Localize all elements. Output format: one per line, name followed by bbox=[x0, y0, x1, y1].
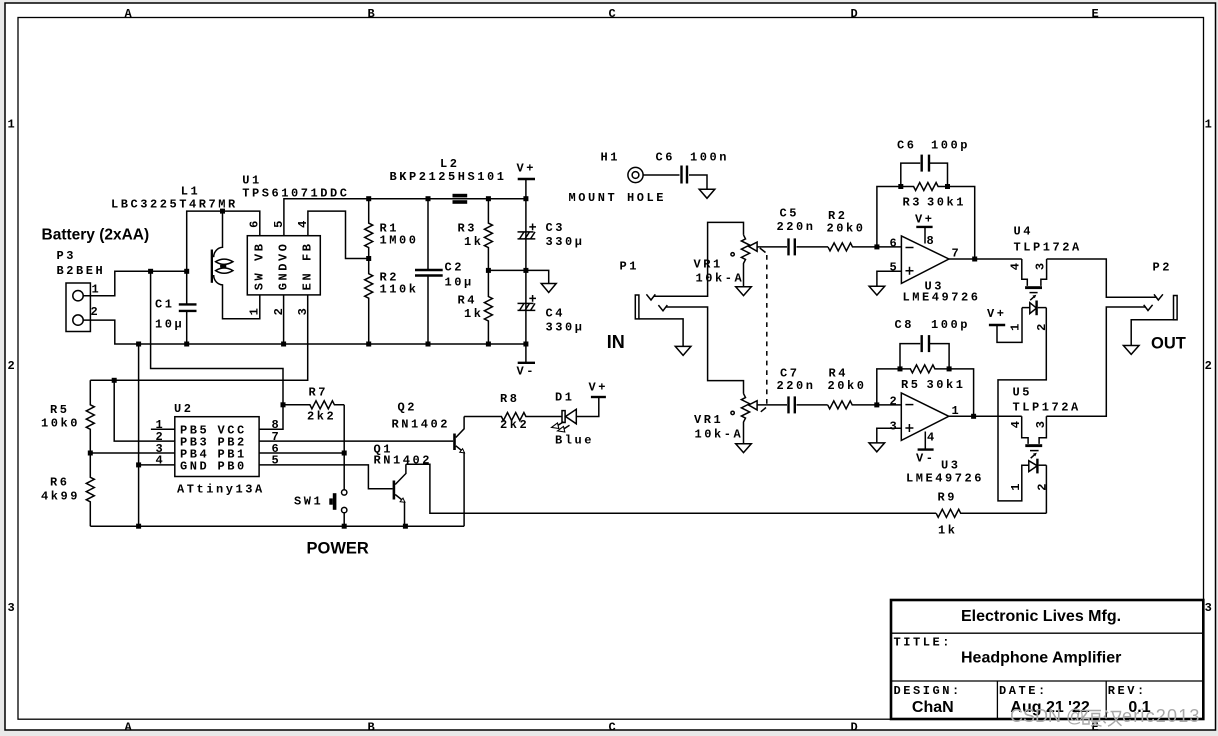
ground symbol U3A pin5 bbox=[869, 286, 885, 295]
resistor R4 bbox=[484, 270, 492, 344]
wire battery plus to L1 and U1 pin6 bbox=[187, 211, 260, 271]
node op-amp B inverting input bbox=[874, 402, 879, 407]
resistor R5 bbox=[86, 380, 94, 453]
wire C7 to R4 bbox=[797, 404, 828, 406]
resistor R6 bbox=[86, 453, 94, 526]
svg-text:LBC3225T4R7MR: LBC3225T4R7MR bbox=[111, 198, 238, 212]
svg-text:10k-A: 10k-A bbox=[696, 272, 745, 286]
watermark CSDN bbox=[1010, 706, 1201, 726]
svg-text:1: 1 bbox=[248, 306, 262, 316]
svg-text:P3: P3 bbox=[57, 249, 77, 263]
svg-text:100p: 100p bbox=[931, 139, 970, 153]
resistor R7 bbox=[283, 401, 344, 409]
wire U4 LED cathode to U5 LED anode bbox=[998, 308, 1046, 501]
svg-text:3: 3 bbox=[890, 420, 900, 434]
svg-text:30k1: 30k1 bbox=[927, 196, 966, 210]
wire mid rail to ground bbox=[488, 270, 548, 283]
wire Q1 collector to R9 rail bbox=[406, 464, 936, 513]
svg-text:C2: C2 bbox=[445, 261, 465, 275]
svg-text:REV:: REV: bbox=[1108, 684, 1147, 698]
svg-text:VR1: VR1 bbox=[694, 413, 723, 427]
svg-text:R3: R3 bbox=[903, 196, 923, 210]
svg-text:D: D bbox=[851, 7, 861, 21]
node output rail / R3 bbox=[486, 196, 491, 201]
power symbol V- bottom bbox=[518, 344, 535, 363]
svg-text:TITLE:: TITLE: bbox=[894, 636, 953, 650]
svg-text:4: 4 bbox=[1009, 419, 1023, 429]
svg-text:V+: V+ bbox=[589, 381, 609, 395]
svg-text:Electronic Lives Mfg.: Electronic Lives Mfg. bbox=[961, 608, 1121, 625]
wire U1 pin3 EN long run bbox=[90, 295, 307, 380]
node L1 top junction bbox=[220, 209, 225, 214]
wire feedback B right to output bbox=[949, 369, 974, 416]
node R5/R6/PB4 junction bbox=[88, 451, 93, 456]
svg-text:DATE:: DATE: bbox=[999, 684, 1048, 698]
svg-text:330µ: 330µ bbox=[546, 321, 585, 335]
resistor R9 bbox=[936, 509, 1046, 517]
svg-text:1k: 1k bbox=[938, 524, 958, 538]
svg-text:EN FB: EN FB bbox=[301, 242, 315, 291]
svg-text:L1: L1 bbox=[181, 185, 201, 199]
capacitor C4 (electrolytic) bbox=[518, 270, 537, 344]
ground symbol P1 bbox=[675, 346, 691, 355]
svg-text:POWER: POWER bbox=[307, 540, 369, 558]
svg-text:TLP172A: TLP172A bbox=[1013, 401, 1081, 415]
svg-text:R4: R4 bbox=[458, 294, 478, 308]
svg-text:2k2: 2k2 bbox=[307, 410, 336, 424]
U3B minus sign bbox=[905, 404, 913, 406]
op-amp U3B feedback wire left bbox=[877, 369, 900, 405]
svg-text:V-: V- bbox=[517, 365, 537, 379]
wire VCC pin8 to V+ net bbox=[151, 271, 283, 429]
wire U1 pin4 FB to divider bbox=[308, 211, 369, 258]
connector P3 pin 1 circle bbox=[73, 291, 83, 301]
node feedback B right bbox=[947, 366, 952, 371]
svg-text:4: 4 bbox=[927, 430, 937, 444]
svg-text:C6: C6 bbox=[656, 151, 676, 165]
node R7 / PB1 junction bbox=[342, 451, 347, 456]
svg-text:C1: C1 bbox=[155, 298, 175, 312]
photorelay U4 symbol bbox=[1022, 259, 1047, 315]
power symbol V+ top bbox=[518, 179, 535, 199]
wire P1 sleeve to ground bbox=[639, 319, 683, 347]
node gnd rail / U1 GND bbox=[281, 342, 286, 347]
svg-text:ATtiny13A: ATtiny13A bbox=[177, 483, 265, 497]
svg-text:C6: C6 bbox=[897, 139, 917, 153]
resistor R4 (audio) bbox=[828, 401, 902, 409]
svg-text:20k0: 20k0 bbox=[827, 222, 866, 236]
U3A V+ power stub pin 8 bbox=[916, 227, 932, 244]
svg-text:C: C bbox=[609, 721, 619, 735]
capacitor C3 (electrolytic) bbox=[518, 199, 537, 271]
svg-text:20k0: 20k0 bbox=[828, 379, 867, 393]
svg-text:Q2: Q2 bbox=[398, 401, 418, 415]
connector P3 pin 2 circle bbox=[73, 315, 83, 325]
resistor R3 (feedback) bbox=[901, 183, 948, 191]
node FB divider junction bbox=[366, 256, 371, 261]
node mid rail / R3 R4 bbox=[486, 268, 491, 273]
IC U1 body bbox=[247, 236, 320, 295]
wire U1 pin5 VO to output rail bbox=[284, 199, 526, 236]
capacitor C7 bbox=[789, 396, 795, 413]
resistor R5 (feedback) bbox=[900, 365, 949, 373]
svg-text:PB0: PB0 bbox=[218, 459, 247, 473]
svg-text:Headphone Amplifier: Headphone Amplifier bbox=[961, 650, 1121, 667]
wire R7 to SW1 top bbox=[343, 405, 345, 490]
svg-text:R8: R8 bbox=[500, 392, 520, 406]
power symbol V+ mid bbox=[987, 307, 1022, 342]
wire C6 to ground bbox=[689, 175, 707, 189]
svg-text:RN1402: RN1402 bbox=[392, 418, 451, 432]
svg-text:BKP2125HS101: BKP2125HS101 bbox=[390, 170, 507, 184]
svg-text:E: E bbox=[1092, 7, 1102, 21]
node mcu gnd rail / SW1 bbox=[342, 524, 347, 529]
svg-text:C8: C8 bbox=[895, 318, 915, 332]
wire C5 to R2 bbox=[797, 246, 829, 248]
svg-text:10k-A: 10k-A bbox=[695, 428, 744, 442]
node output rail / V+ bbox=[523, 196, 528, 201]
svg-text:C5: C5 bbox=[780, 207, 800, 221]
svg-text:6: 6 bbox=[890, 237, 900, 251]
svg-text:4: 4 bbox=[156, 454, 166, 468]
potentiometer VR1a bbox=[731, 235, 757, 287]
wire battery minus: P3 pin2 to ground rail bbox=[83, 320, 526, 344]
IC U2 body bbox=[175, 417, 259, 477]
svg-text:TLP172A: TLP172A bbox=[1014, 241, 1082, 255]
svg-text:P2: P2 bbox=[1153, 261, 1173, 275]
capacitor C8 (feedback) bbox=[900, 335, 949, 369]
op-amp U3A feedback wire left bbox=[877, 187, 901, 247]
U3A minus sign bbox=[906, 247, 914, 249]
svg-text:C4: C4 bbox=[546, 307, 566, 321]
svg-text:330µ: 330µ bbox=[546, 235, 585, 249]
wire PB3 to EN net bbox=[114, 380, 175, 441]
U3A plus sign bbox=[906, 267, 914, 275]
wire P1 ring to VR1b top bbox=[666, 307, 744, 394]
svg-text:OUT: OUT bbox=[1151, 335, 1186, 353]
potentiometer VR1b bbox=[731, 394, 757, 444]
svg-text:220n: 220n bbox=[777, 220, 816, 234]
U3B V- power stub pin 4 bbox=[918, 432, 934, 450]
svg-text:U1: U1 bbox=[242, 174, 262, 188]
svg-text:10k0: 10k0 bbox=[41, 417, 80, 431]
power symbol V+ at D1 bbox=[591, 396, 606, 398]
svg-text:1: 1 bbox=[92, 283, 102, 297]
ground symbol VR1a bbox=[736, 287, 752, 296]
svg-text:R5: R5 bbox=[50, 403, 70, 417]
node gnd rail / C1 bbox=[184, 342, 189, 347]
ground symbol U3B pin3 bbox=[869, 443, 885, 452]
node gnd rail / R4 bbox=[486, 342, 491, 347]
svg-text:IN: IN bbox=[607, 332, 625, 352]
svg-text:2: 2 bbox=[1205, 359, 1215, 373]
svg-text:U3: U3 bbox=[941, 459, 961, 473]
node mcu gnd rail / Q1 emitter bbox=[403, 524, 408, 529]
svg-text:3: 3 bbox=[1033, 260, 1047, 270]
svg-text:V-: V- bbox=[916, 452, 936, 466]
node gnd rail / V- stub bbox=[523, 342, 528, 347]
ferrite bead L2 bbox=[453, 194, 468, 204]
U2 pin 1 stub (PB5 n.c.) bbox=[151, 428, 175, 430]
connector P3 body bbox=[66, 283, 90, 332]
svg-text:10µ: 10µ bbox=[445, 276, 474, 290]
svg-text:10µ: 10µ bbox=[155, 318, 184, 332]
node gnd rail / R2 bbox=[366, 342, 371, 347]
capacitor C5 bbox=[789, 238, 795, 255]
svg-text:6: 6 bbox=[248, 218, 262, 228]
svg-text:C3: C3 bbox=[546, 221, 566, 235]
svg-text:V+: V+ bbox=[915, 213, 935, 227]
svg-text:Battery (2xAA): Battery (2xAA) bbox=[42, 227, 150, 244]
svg-text:4: 4 bbox=[1008, 260, 1022, 270]
svg-text:DESIGN:: DESIGN: bbox=[894, 684, 962, 698]
node gnd rail / MCU drop bbox=[136, 342, 141, 347]
ground symbol VR1b bbox=[736, 444, 752, 453]
node feedback B left bbox=[898, 366, 903, 371]
svg-text:eric2013: eric2013 bbox=[1122, 706, 1201, 726]
capacitor C2 bbox=[415, 199, 443, 344]
svg-text:R7: R7 bbox=[309, 386, 329, 400]
wire U3A output to U4 bbox=[949, 258, 1022, 260]
wire U1 pin2 GND to rail bbox=[283, 295, 285, 344]
svg-text:U4: U4 bbox=[1014, 225, 1034, 239]
svg-text:H1: H1 bbox=[601, 151, 621, 165]
svg-text:SW1: SW1 bbox=[294, 495, 323, 509]
svg-text:V+: V+ bbox=[987, 307, 1007, 321]
svg-text:100p: 100p bbox=[931, 318, 970, 332]
svg-text:8: 8 bbox=[927, 234, 937, 248]
jack P1 body bbox=[635, 294, 667, 319]
ground symbol mount bbox=[699, 189, 715, 198]
svg-text:3: 3 bbox=[8, 601, 18, 615]
node mid rail / C3 C4 bbox=[523, 268, 528, 273]
watermark CJK glyphs 硬汉 bbox=[1082, 711, 1122, 727]
svg-text:U5: U5 bbox=[1013, 386, 1033, 400]
LED D1 bbox=[552, 398, 599, 432]
jack P2 body bbox=[1144, 294, 1177, 320]
svg-text:SW VB: SW VB bbox=[252, 242, 266, 291]
wire VR1a wiper to C5 bbox=[757, 246, 787, 248]
svg-text:110k: 110k bbox=[380, 283, 419, 297]
node mcu gnd rail / battery drop bbox=[136, 524, 141, 529]
wire battery minus drop to U2 GND bbox=[138, 344, 140, 526]
svg-text:U2: U2 bbox=[174, 402, 194, 416]
wire PB4 to R5/R6 bbox=[90, 452, 175, 454]
transistor Q2 bbox=[453, 417, 464, 527]
node feedback left / C6 bbox=[898, 184, 903, 189]
svg-text:L2: L2 bbox=[440, 157, 460, 171]
svg-text:2: 2 bbox=[8, 359, 18, 373]
gang dashed link VR1a-VR1b bbox=[760, 248, 767, 412]
svg-text:D1: D1 bbox=[555, 391, 575, 405]
svg-text:LME49726: LME49726 bbox=[903, 291, 981, 305]
capacitor C1 bbox=[179, 271, 197, 344]
op-amp U3B triangle bbox=[901, 393, 949, 441]
wire GND pin 4 bbox=[139, 464, 175, 466]
svg-text:3: 3 bbox=[1034, 419, 1048, 429]
svg-text:1: 1 bbox=[8, 117, 18, 131]
wire VR1b wiper to C7 bbox=[757, 404, 787, 406]
svg-text:GNDVO: GNDVO bbox=[277, 242, 291, 291]
capacitor C6 (feedback) bbox=[901, 155, 948, 187]
wire P1 tip to VR1a top bbox=[654, 222, 744, 296]
svg-text:P1: P1 bbox=[620, 260, 640, 274]
transistor Q1 bbox=[393, 464, 406, 526]
svg-text:2k2: 2k2 bbox=[500, 418, 529, 432]
wire U3B output to U5 bbox=[949, 415, 1022, 417]
svg-text:A: A bbox=[125, 721, 135, 735]
wire feedback right to output bbox=[948, 187, 975, 260]
inductor L1 bbox=[211, 211, 260, 319]
svg-text:B: B bbox=[368, 721, 378, 735]
ground symbol P2 bbox=[1123, 346, 1139, 355]
svg-text:5: 5 bbox=[890, 261, 900, 275]
svg-text:30k1: 30k1 bbox=[927, 378, 966, 392]
node U3A output / feedback bbox=[972, 257, 977, 262]
svg-text:2: 2 bbox=[91, 305, 101, 319]
svg-text:1k: 1k bbox=[464, 235, 484, 249]
node U3B output / feedback bbox=[971, 414, 976, 419]
svg-text:D: D bbox=[851, 721, 861, 735]
wire U5 pin3 to P2 ring bbox=[1046, 307, 1145, 416]
wire battery plus: P3 pin1 to top rail bbox=[83, 271, 187, 295]
svg-text:R9: R9 bbox=[938, 491, 958, 505]
node junction battery plus / C1 bbox=[184, 269, 189, 274]
node VCC / R7 junction bbox=[281, 402, 286, 407]
svg-text:2: 2 bbox=[1036, 481, 1050, 491]
svg-text:R5: R5 bbox=[901, 378, 921, 392]
resistor R2 bbox=[365, 259, 373, 345]
svg-text:100n: 100n bbox=[690, 151, 729, 165]
title block outline bbox=[891, 600, 1203, 719]
wire MCU ground rail bbox=[90, 525, 464, 527]
svg-text:1k: 1k bbox=[464, 307, 484, 321]
ground symbol mid rail bbox=[541, 284, 556, 293]
wire PB1 to SW1 bbox=[259, 452, 344, 454]
svg-text:3: 3 bbox=[1205, 601, 1215, 615]
svg-text:Blue: Blue bbox=[555, 434, 594, 448]
svg-text:GND: GND bbox=[180, 459, 209, 473]
svg-text:A: A bbox=[125, 7, 135, 21]
mount hole symbol H1 bbox=[628, 167, 643, 182]
U3B plus sign bbox=[905, 424, 913, 432]
wire U4 pin3 to P2 tip bbox=[1047, 259, 1156, 297]
resistor R2 (audio) bbox=[828, 243, 901, 251]
svg-text:MOUNT HOLE: MOUNT HOLE bbox=[569, 191, 667, 205]
node op-amp A inverting input bbox=[874, 244, 879, 249]
node feedback right / C6 bbox=[945, 184, 950, 189]
svg-text:B2BEH: B2BEH bbox=[57, 264, 106, 278]
node GND pin branch bbox=[136, 462, 141, 467]
svg-text:LME49726: LME49726 bbox=[906, 472, 984, 486]
switch SW1 bbox=[329, 490, 347, 527]
op-amp U3A triangle bbox=[901, 236, 949, 284]
svg-text:ChaN: ChaN bbox=[912, 699, 954, 716]
wire P2 sleeve to ground bbox=[1131, 320, 1173, 346]
svg-text:RN1402: RN1402 bbox=[374, 453, 433, 467]
svg-text:VR1: VR1 bbox=[694, 258, 723, 272]
svg-text:CSDN @: CSDN @ bbox=[1010, 706, 1084, 726]
node output rail / R1 bbox=[366, 196, 371, 201]
svg-text:220n: 220n bbox=[777, 379, 816, 393]
node junction battery plus / VB sense bbox=[148, 269, 153, 274]
resistor R8 bbox=[464, 413, 562, 421]
wire PB2 to Q2 base bbox=[259, 440, 453, 442]
node EN wire / PB3 branch bbox=[112, 378, 117, 383]
node output rail / C2 bbox=[426, 196, 431, 201]
svg-text:1: 1 bbox=[1008, 321, 1022, 331]
svg-text:2: 2 bbox=[890, 394, 900, 408]
svg-text:1: 1 bbox=[1205, 117, 1215, 131]
svg-text:R3: R3 bbox=[458, 222, 478, 236]
resistor R1 bbox=[365, 199, 373, 259]
svg-text:1: 1 bbox=[1009, 481, 1023, 491]
svg-text:1M00: 1M00 bbox=[380, 234, 419, 248]
svg-text:R6: R6 bbox=[50, 476, 70, 490]
wire PB0 to Q1 base bbox=[259, 465, 393, 489]
wire pin5 to ground bbox=[877, 271, 902, 286]
svg-text:C: C bbox=[609, 7, 619, 21]
wire H1 to C6 bbox=[643, 174, 679, 176]
svg-text:B: B bbox=[368, 7, 378, 21]
capacitor C6 (mount) bbox=[682, 166, 688, 184]
node gnd rail / C2 bbox=[426, 342, 431, 347]
wire pin3 to ground bbox=[877, 428, 902, 443]
photorelay U5 symbol bbox=[1022, 416, 1047, 473]
resistor R3 bbox=[484, 199, 492, 271]
svg-text:V+: V+ bbox=[517, 162, 537, 176]
wire U5 LED cathode to R9 bbox=[1045, 465, 1047, 513]
svg-text:4k99: 4k99 bbox=[41, 490, 80, 504]
